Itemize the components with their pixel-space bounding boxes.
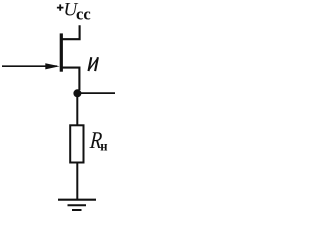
svg-text:н: н bbox=[100, 138, 108, 154]
svg-text:cc: cc bbox=[76, 5, 91, 24]
